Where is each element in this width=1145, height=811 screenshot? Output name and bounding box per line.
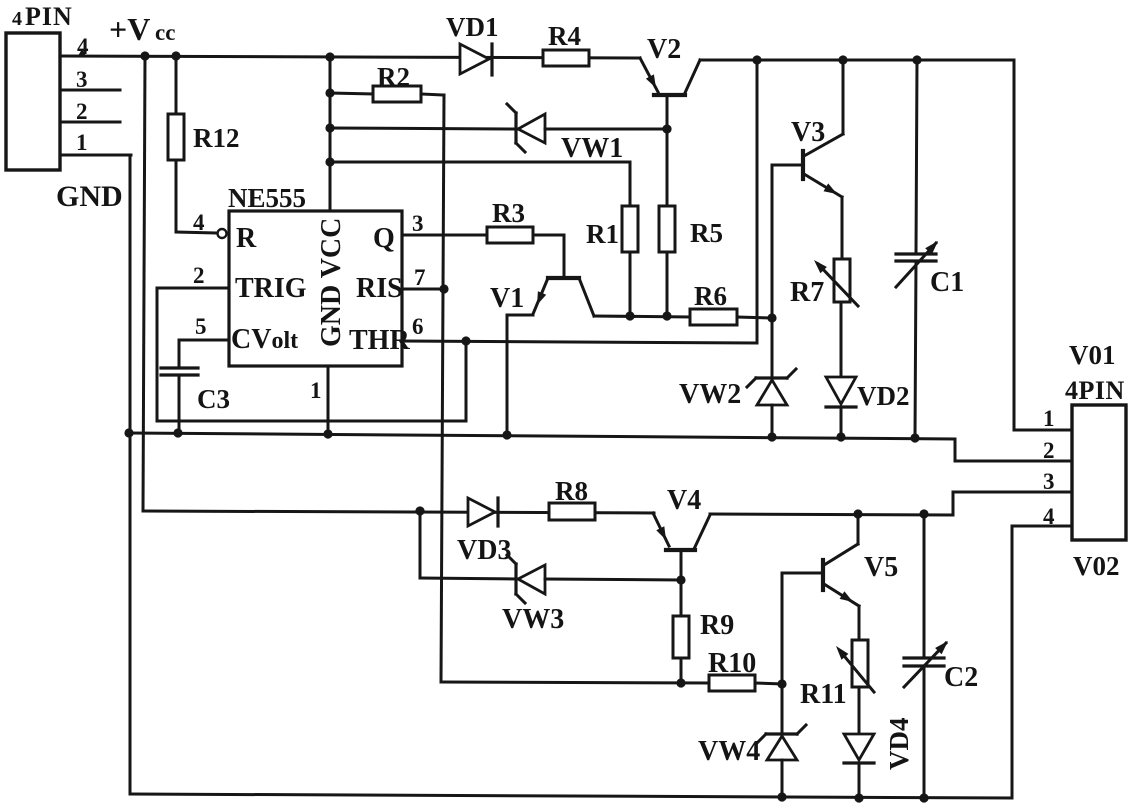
resistor R8 (549, 503, 595, 520)
node rail-VW4 (777, 792, 786, 801)
wire bottom rail (130, 794, 1012, 798)
V01 pin 2 label (1043, 438, 1055, 463)
svg-text:R1: R1 (586, 219, 619, 249)
resistor R4 (543, 50, 589, 66)
wire R2 long vertical (441, 95, 444, 682)
node bus-C1 (910, 433, 919, 442)
label VD3 (457, 535, 511, 566)
node Vcc-B (171, 51, 180, 60)
wire output pin3 jog (953, 492, 1072, 515)
svg-text:VD2: VD2 (857, 381, 910, 411)
resistor R12 (168, 56, 215, 233)
U1 pin 6 number (412, 314, 424, 339)
node lower bus VD3 tap (415, 506, 424, 515)
svg-text:V5: V5 (864, 552, 898, 583)
svg-text:V1: V1 (490, 283, 524, 314)
svg-text:R11: R11 (800, 679, 847, 710)
V01 pin 1 label (1043, 406, 1055, 431)
svg-text:VD3: VD3 (457, 535, 511, 566)
resistor R10 (709, 675, 782, 691)
resistor R9 (673, 616, 689, 683)
label VD4 rotated (884, 718, 914, 771)
U1 pin 2 number (193, 263, 205, 288)
node VW1-V2 (662, 124, 671, 133)
wire VD3 to VW3 link (420, 511, 516, 579)
label R2 (377, 62, 410, 92)
svg-text:4: 4 (1043, 504, 1055, 529)
svg-text:C3: C3 (197, 384, 230, 414)
transistor V2 (640, 58, 700, 206)
svg-text:R4: R4 (548, 21, 581, 51)
resistor R1 (622, 206, 638, 316)
transistor V4 (653, 513, 710, 616)
label V1 (490, 283, 524, 314)
node rail-V3 (838, 55, 847, 64)
label R11 (800, 679, 847, 710)
svg-text:2: 2 (1043, 438, 1055, 463)
wire GND left vertical (129, 155, 132, 794)
U1 pin 4 number (193, 210, 205, 235)
label R8 (555, 476, 588, 506)
variable resistor R11 (836, 640, 874, 734)
diode VD4 (844, 734, 874, 798)
wire top rail right (700, 60, 1072, 430)
label 4PIN output (1065, 376, 1125, 405)
label VD1 (446, 12, 499, 42)
node Vcc-C (325, 52, 334, 61)
label NE555 (228, 183, 306, 213)
label C3 (197, 384, 230, 414)
wire U1 VCC feed vertical (329, 57, 332, 211)
svg-text:4: 4 (193, 210, 205, 235)
svg-text:V3: V3 (791, 117, 825, 148)
svg-text:R12: R12 (193, 123, 240, 153)
label V2 (647, 34, 681, 65)
label VD2 (857, 381, 910, 411)
transistor V5 (782, 515, 859, 684)
wire U1 pin6 THR (402, 60, 757, 343)
wire ground bus (129, 433, 955, 439)
label VW3 (502, 604, 564, 635)
node R1 tap (325, 157, 334, 166)
variable capacitor C1 (896, 60, 938, 438)
svg-text:C2: C2 (944, 662, 978, 693)
svg-text:R3: R3 (492, 198, 525, 228)
wire Vcc feed to lower bus (143, 56, 145, 511)
svg-text:6: 6 (412, 314, 424, 339)
svg-text:3: 3 (412, 211, 424, 236)
svg-text:5: 5 (195, 314, 207, 339)
U1 text Q (373, 223, 395, 254)
diode VD2 (826, 377, 856, 437)
U1 pin R bubble (218, 229, 227, 238)
wire Vcc lower bus right segment (710, 514, 953, 515)
resistor R3 (487, 227, 564, 276)
diode VD3 (468, 498, 498, 526)
svg-text:4PIN: 4PIN (1065, 376, 1125, 405)
zener diode VW2 (747, 318, 796, 437)
V01 pin 4 label (1043, 504, 1055, 529)
transistor V3 (772, 60, 843, 318)
variable capacitor C2 (904, 514, 948, 797)
label R10 (708, 648, 756, 679)
label V01 (1069, 340, 1116, 370)
node pin7-R2 (439, 284, 448, 293)
svg-text:V01: V01 (1069, 340, 1116, 370)
variable resistor R7 (814, 259, 858, 377)
node R2 tap (325, 88, 334, 97)
svg-text:VW1: VW1 (561, 133, 623, 164)
connector J1 4PIN box (6, 33, 60, 170)
wire U1 pin3 Q (402, 234, 487, 237)
wire U1 pin7 RIS (402, 288, 444, 291)
U1 pin 1 number (310, 378, 322, 403)
resistor R6 (690, 309, 772, 325)
svg-text:Q: Q (373, 223, 395, 254)
wire R1 feed (330, 162, 630, 206)
J1 pin 1 label (76, 130, 88, 155)
resistor R2 (330, 86, 444, 102)
label +Vcc (109, 11, 175, 47)
op-amp timer IC U1 NE555 body (229, 211, 402, 366)
node R10-V5 base (777, 679, 786, 688)
node R1 bottom (625, 311, 634, 320)
svg-text:1: 1 (310, 378, 322, 403)
svg-text:R6: R6 (694, 281, 727, 311)
resistor R5 (659, 206, 675, 316)
svg-text:R7: R7 (790, 277, 824, 308)
label V5 (864, 552, 898, 583)
diode VD1 (460, 44, 492, 75)
node bus-GND (124, 428, 133, 437)
wire Vcc lower bus left segment (143, 511, 654, 513)
node bus-VD2 (836, 432, 845, 441)
label R9 (700, 610, 734, 641)
wire R10 feed line (441, 682, 709, 683)
svg-text:+V: +V (109, 11, 150, 47)
node V4 base VW3 (676, 575, 685, 584)
svg-text:2: 2 (76, 99, 88, 124)
label 4PIN (12, 2, 73, 31)
svg-text:4: 4 (12, 8, 22, 30)
svg-text:TRIG: TRIG (235, 273, 307, 304)
V01 pin 3 label (1043, 469, 1055, 494)
svg-text:PIN: PIN (25, 2, 73, 31)
label R4 (548, 21, 581, 51)
wire CVolt to C3 (179, 340, 229, 368)
svg-text:VW3: VW3 (502, 604, 564, 635)
U1 pin 7 number (414, 265, 426, 290)
node TRIG-THR junction (461, 336, 470, 345)
svg-text:VW2: VW2 (679, 379, 741, 410)
label R12 (193, 123, 240, 153)
U1 text R (236, 223, 257, 254)
svg-text:GND VCC: GND VCC (316, 218, 347, 347)
zener diode VW1 (330, 104, 667, 152)
svg-text:V4: V4 (667, 485, 701, 516)
J1 pin 2 stub (60, 121, 120, 124)
svg-text:R5: R5 (690, 218, 723, 248)
J1 pin 2 label (76, 99, 88, 124)
label C1 (930, 267, 964, 298)
svg-text:1: 1 (1043, 406, 1055, 431)
svg-text:3: 3 (76, 67, 88, 92)
svg-text:VD4: VD4 (884, 718, 914, 771)
svg-text:VD1: VD1 (446, 12, 499, 42)
node bus-U1pin1 (323, 429, 332, 438)
label V02 (1073, 551, 1120, 581)
svg-text:V2: V2 (647, 34, 681, 65)
wire output pin2 jog (955, 439, 1072, 461)
node VW1 tap (325, 123, 334, 132)
J1 pin 4 label (77, 34, 89, 59)
J1 pin 3 stub (60, 89, 120, 92)
label V3 (791, 117, 825, 148)
node C2 top (919, 509, 928, 518)
wire output pin4 riser (1012, 526, 1072, 798)
J1 pin 3 label (76, 67, 88, 92)
label R5 (690, 218, 723, 248)
label R1 (586, 219, 619, 249)
wire Vcc top rail left (60, 56, 640, 58)
svg-text:3: 3 (1043, 469, 1055, 494)
node bus-VW2 (767, 432, 776, 441)
U1 pin 3 number (412, 211, 424, 236)
svg-text:1: 1 (76, 130, 88, 155)
node rail-VD4 (854, 793, 863, 802)
label C2 (944, 662, 978, 693)
U1 text RIS (356, 273, 403, 304)
zener diode VW3 (507, 555, 681, 603)
node V5 collector (853, 509, 862, 518)
svg-text:CVolt: CVolt (231, 324, 298, 355)
capacitor C3 (161, 368, 198, 433)
svg-text:V02: V02 (1073, 551, 1120, 581)
svg-text:C1: C1 (930, 267, 964, 298)
label R6 (694, 281, 727, 311)
U1 text GND VCC rotated (316, 218, 347, 347)
svg-text:R9: R9 (700, 610, 734, 641)
wire TRIG loop (157, 288, 466, 421)
zener diode VW4 (757, 684, 806, 797)
node V2 collector rail (752, 55, 761, 64)
node R5 bottom (662, 311, 671, 320)
node Vcc-A (140, 51, 149, 60)
U1 text TRIG (235, 273, 307, 304)
svg-text:R8: R8 (555, 476, 588, 506)
svg-text:7: 7 (414, 265, 426, 290)
U1 pin 5 number (195, 314, 207, 339)
svg-text:cc: cc (155, 20, 175, 45)
wire U1 GND pin to bus (327, 366, 330, 433)
node bus-V1 (502, 430, 511, 439)
svg-text:RIS: RIS (356, 273, 403, 304)
svg-text:R2: R2 (377, 62, 410, 92)
svg-text:R10: R10 (708, 648, 756, 679)
U1 text CVolt (231, 324, 298, 355)
svg-text:2: 2 (193, 263, 205, 288)
svg-text:VW4: VW4 (698, 736, 760, 767)
svg-text:NE555: NE555 (228, 183, 306, 213)
label R3 (492, 198, 525, 228)
node rail-C1 (912, 55, 921, 64)
wire V1 collector to R6 (594, 316, 690, 317)
node R9 bottom (676, 678, 685, 687)
J1 pin 1 wire (60, 154, 131, 157)
label VW1 (561, 133, 623, 164)
label V4 (667, 485, 701, 516)
U1 text THR (349, 325, 410, 356)
transistor V1 (507, 278, 594, 435)
connector V01 4PIN box (1072, 405, 1126, 540)
svg-text:R: R (236, 223, 257, 254)
label VW4 (698, 736, 760, 767)
label GND (56, 180, 123, 213)
label R7 (790, 277, 824, 308)
node bus-C3 (173, 428, 182, 437)
node rail-C2 (919, 793, 928, 802)
svg-text:GND: GND (56, 180, 123, 213)
label VW2 (679, 379, 741, 410)
node R6-V3-VW2 (767, 313, 776, 322)
